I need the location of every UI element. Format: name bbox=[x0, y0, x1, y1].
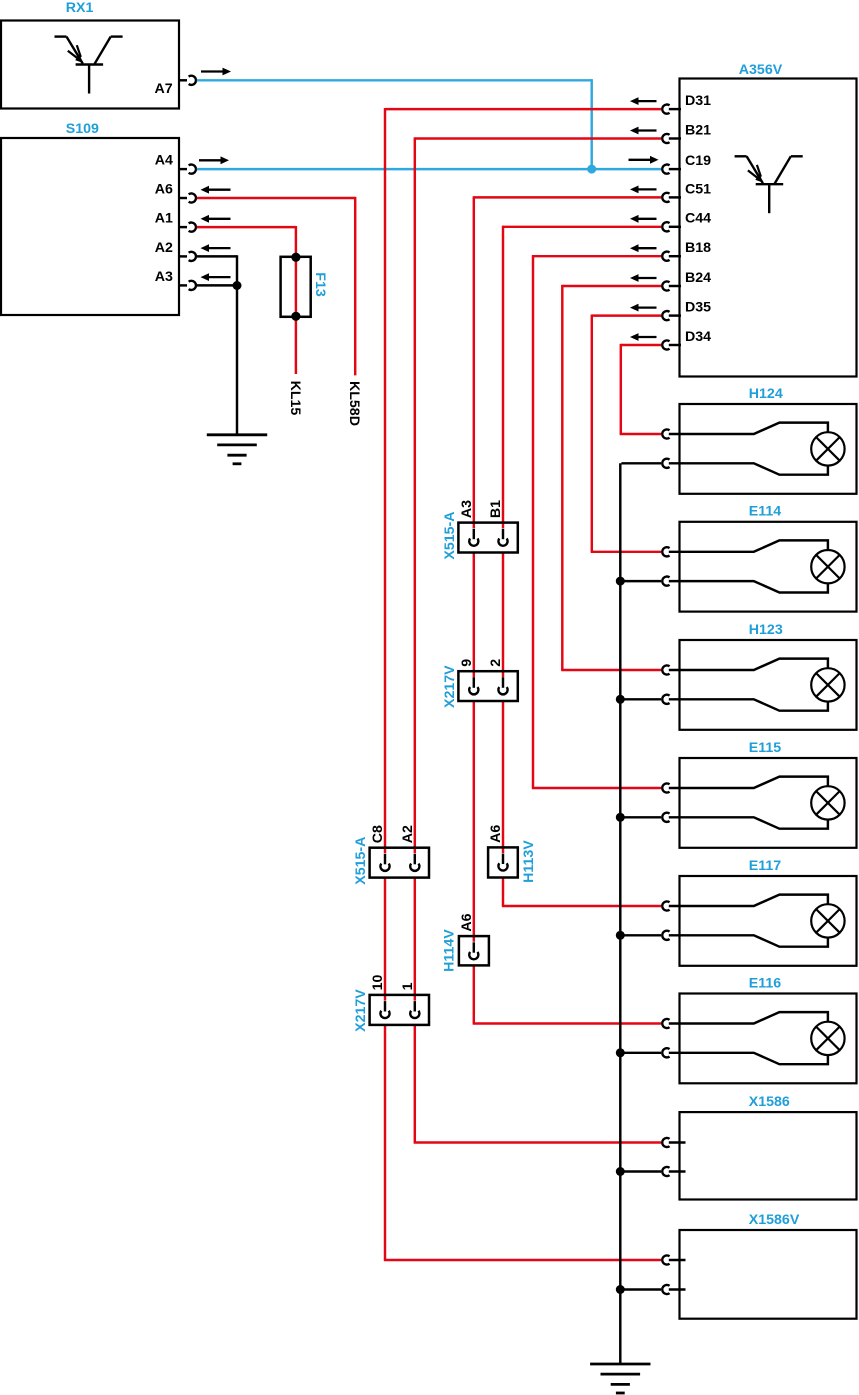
svg-text:A3: A3 bbox=[459, 500, 475, 518]
pin C19 label bbox=[685, 153, 711, 169]
svg-text:D31: D31 bbox=[685, 93, 711, 109]
connector X217V upper bbox=[458, 671, 517, 701]
pin bottom connector E114 bbox=[662, 577, 669, 586]
lamp symbol E116 bbox=[811, 1022, 844, 1055]
wire bus stub 0 bbox=[620, 580, 661, 582]
wire bus stub 3 bbox=[620, 934, 661, 936]
pin B24 label bbox=[685, 270, 711, 286]
wire D35 (red) bbox=[591, 314, 661, 551]
pin A4 label bbox=[155, 153, 173, 169]
svg-text:F13: F13 bbox=[312, 272, 328, 297]
pin bottom connector H123 bbox=[662, 695, 669, 704]
node A2/A3 junction bbox=[233, 281, 242, 290]
pin A3 label bbox=[459, 500, 475, 518]
svg-text:1: 1 bbox=[400, 982, 416, 990]
lamp symbol H124 bbox=[811, 432, 844, 465]
box S109 bbox=[1, 138, 179, 315]
node bus junction 3 bbox=[616, 931, 625, 940]
pin C44 connector bbox=[662, 222, 681, 231]
ground S109 bbox=[207, 435, 267, 464]
wire bus stub 6 bbox=[620, 1288, 661, 1290]
wire ground bus bbox=[620, 463, 661, 1364]
label X515-A lower bbox=[353, 837, 369, 885]
box E117 bbox=[680, 876, 857, 966]
pin top connector X1586 bbox=[662, 1138, 685, 1147]
antenna symbol in RX1 bbox=[55, 37, 123, 94]
svg-text:H124: H124 bbox=[749, 386, 783, 402]
node bus junction 4 bbox=[616, 1048, 625, 1057]
wire D34 (red) bbox=[620, 344, 661, 434]
wire A7 to C19 (blue) bbox=[197, 79, 592, 169]
lamp symbol E117 bbox=[811, 904, 844, 937]
arrow A3 in bbox=[201, 273, 231, 281]
lamp symbol H123 bbox=[811, 668, 844, 701]
label X1586 bbox=[749, 1094, 790, 1110]
svg-text:A2: A2 bbox=[155, 240, 173, 256]
svg-text:C51: C51 bbox=[685, 181, 711, 197]
svg-text:H114V: H114V bbox=[441, 929, 457, 972]
pin A6 connector bbox=[179, 193, 196, 202]
pin bottom connector X1586 bbox=[662, 1167, 685, 1176]
fuse F13 bbox=[281, 253, 311, 321]
pin D31 connector bbox=[662, 105, 681, 114]
box RX1 bbox=[1, 21, 179, 109]
arrow A2 in bbox=[201, 244, 231, 252]
pin C51 connector bbox=[662, 193, 681, 202]
antenna symbol in A356V bbox=[735, 156, 803, 213]
label X515-A upper bbox=[442, 511, 458, 559]
pin bottom connector E115 bbox=[662, 813, 669, 822]
svg-text:E115: E115 bbox=[749, 740, 781, 756]
wire bus stub 2 bbox=[620, 816, 661, 818]
wire C51 (red) bbox=[473, 196, 661, 1023]
box X1586V bbox=[680, 1230, 857, 1319]
pin top connector E115 bbox=[662, 783, 669, 792]
svg-text:H123: H123 bbox=[749, 622, 783, 638]
pin A6 label (H113V) bbox=[488, 825, 504, 843]
box X1586 bbox=[680, 1112, 857, 1199]
pin 2 label bbox=[488, 659, 504, 667]
pin bottom connector X1586V bbox=[662, 1285, 685, 1294]
lamp wires E117 bbox=[669, 895, 828, 947]
pin A2 label bbox=[400, 825, 416, 843]
lamp wires H124 bbox=[669, 423, 828, 475]
pin D34 label bbox=[685, 329, 711, 345]
label A356V bbox=[739, 62, 783, 78]
svg-text:A2: A2 bbox=[400, 825, 416, 843]
pin B24 connector bbox=[662, 281, 681, 290]
label X217V lower bbox=[353, 989, 369, 1032]
node junction C19 (blue) bbox=[587, 165, 596, 174]
wire A6 to KL58D bbox=[197, 197, 355, 376]
label E117 bbox=[749, 858, 781, 874]
svg-text:9: 9 bbox=[459, 659, 475, 667]
pin A7 label bbox=[154, 81, 172, 97]
connector X217V lower bbox=[370, 995, 429, 1025]
box H123 bbox=[680, 640, 857, 730]
pin C8 label bbox=[370, 825, 386, 843]
arrow A6 in bbox=[201, 186, 231, 194]
pin bottom connector E117 bbox=[662, 931, 669, 940]
svg-text:A3: A3 bbox=[155, 269, 173, 285]
wire A1 to KL15 bbox=[197, 226, 296, 374]
lamp wires E116 bbox=[669, 1012, 828, 1064]
pin A3 connector bbox=[179, 281, 196, 290]
pin C51 label bbox=[685, 181, 711, 197]
ground main bbox=[590, 1364, 650, 1393]
wire A4 to junction (blue) bbox=[197, 168, 592, 170]
connector H113V bbox=[488, 847, 518, 877]
lamp wires E115 bbox=[669, 777, 828, 829]
pin B1 label bbox=[488, 500, 504, 518]
arrow A1 in bbox=[201, 215, 231, 223]
lamp wires E114 bbox=[669, 540, 828, 592]
pin B18 connector bbox=[662, 252, 681, 261]
label KL15 bbox=[287, 381, 303, 416]
svg-text:B18: B18 bbox=[685, 240, 711, 256]
wire B18 (red) bbox=[532, 255, 661, 788]
label H123 bbox=[749, 622, 783, 638]
node bus junction 6 bbox=[616, 1285, 625, 1294]
svg-text:10: 10 bbox=[370, 975, 386, 991]
arrow C19 in bbox=[629, 156, 659, 164]
pin A2 connector bbox=[179, 252, 196, 261]
label H114V bbox=[441, 929, 457, 972]
svg-text:S109: S109 bbox=[66, 121, 99, 137]
pin 9 label bbox=[459, 659, 475, 667]
wire bus stub 5 bbox=[620, 1170, 661, 1172]
svg-text:E117: E117 bbox=[749, 858, 781, 874]
box E116 bbox=[680, 994, 857, 1084]
wire bus stub 1 bbox=[620, 698, 661, 700]
label E115 bbox=[749, 740, 781, 756]
pin D34 connector bbox=[662, 340, 681, 349]
pin bottom connector E116 bbox=[662, 1048, 669, 1057]
label X217V upper bbox=[442, 665, 458, 708]
svg-text:A356V: A356V bbox=[739, 62, 783, 78]
arrow A7 out bbox=[201, 68, 231, 76]
arrow B18 out bbox=[630, 244, 657, 252]
svg-text:A6: A6 bbox=[459, 913, 475, 931]
pin C44 label bbox=[685, 211, 711, 227]
node bus junction 5 bbox=[616, 1167, 625, 1176]
label KL58D bbox=[346, 381, 362, 426]
svg-text:2: 2 bbox=[488, 659, 504, 667]
pin A1 connector bbox=[179, 223, 196, 232]
svg-text:B21: B21 bbox=[685, 122, 711, 138]
arrow D31 out bbox=[630, 97, 657, 105]
svg-text:X515-A: X515-A bbox=[353, 837, 369, 885]
pin top connector E116 bbox=[662, 1019, 669, 1028]
svg-text:H113V: H113V bbox=[521, 840, 537, 883]
svg-text:RX1: RX1 bbox=[66, 0, 94, 16]
pin A6 label bbox=[155, 182, 173, 198]
svg-text:A1: A1 bbox=[155, 211, 173, 227]
lamp symbol E115 bbox=[811, 786, 844, 819]
svg-text:D35: D35 bbox=[685, 300, 711, 316]
svg-text:A6: A6 bbox=[488, 825, 504, 843]
svg-text:KL15: KL15 bbox=[287, 381, 303, 416]
pin 10 label bbox=[370, 975, 386, 991]
svg-text:C44: C44 bbox=[685, 211, 711, 227]
pin A2 label bbox=[155, 240, 173, 256]
pin A4 connector bbox=[179, 165, 196, 174]
connector X515-A lower bbox=[370, 848, 429, 878]
svg-text:B1: B1 bbox=[488, 500, 504, 518]
wire junction to ground bbox=[236, 286, 238, 435]
svg-text:A6: A6 bbox=[155, 182, 173, 198]
pin D31 label bbox=[685, 93, 711, 109]
pin A1 label bbox=[155, 211, 173, 227]
connector X515-A upper bbox=[458, 523, 517, 553]
arrow C44 out bbox=[630, 215, 657, 223]
svg-text:A7: A7 bbox=[154, 81, 172, 97]
box H124 bbox=[680, 404, 857, 494]
connector H114V bbox=[459, 936, 489, 965]
svg-text:E116: E116 bbox=[749, 975, 781, 991]
arrow A4 out bbox=[199, 156, 229, 164]
lamp wires H123 bbox=[669, 659, 828, 711]
label F13 bbox=[312, 272, 328, 297]
arrow B21 out bbox=[630, 127, 657, 135]
svg-text:X515-A: X515-A bbox=[442, 511, 458, 559]
pin B21 connector bbox=[662, 134, 681, 143]
arrow B24 out bbox=[630, 274, 657, 282]
pin A7 connector bbox=[179, 76, 196, 85]
pin top connector H123 bbox=[662, 665, 669, 674]
svg-text:X217V: X217V bbox=[442, 665, 458, 708]
pin top connector E114 bbox=[662, 547, 669, 556]
wire A3 to junction bbox=[197, 284, 237, 286]
node bus junction 2 bbox=[616, 813, 625, 822]
pin D35 connector bbox=[662, 311, 681, 320]
svg-text:E114: E114 bbox=[749, 504, 781, 520]
svg-text:KL58D: KL58D bbox=[346, 381, 362, 426]
pin top connector E117 bbox=[662, 901, 669, 910]
node bus junction 0 bbox=[616, 577, 625, 586]
pin 1 label bbox=[400, 982, 416, 990]
svg-text:C19: C19 bbox=[685, 153, 711, 169]
pin A6 label (H114V) bbox=[459, 913, 475, 931]
pin top connector X1586V bbox=[662, 1255, 685, 1264]
pin B21 label bbox=[685, 122, 711, 138]
svg-text:X217V: X217V bbox=[353, 989, 369, 1032]
svg-text:D34: D34 bbox=[685, 329, 711, 345]
wire A2 down bbox=[197, 255, 237, 285]
label RX1 bbox=[66, 0, 94, 16]
label E116 bbox=[749, 975, 781, 991]
svg-text:X1586V: X1586V bbox=[749, 1212, 800, 1228]
wire C44 (red) bbox=[502, 226, 661, 906]
arrow C51 out bbox=[630, 186, 657, 194]
wire B21 (red) bbox=[414, 137, 661, 1142]
pin B18 label bbox=[685, 240, 711, 256]
pin bottom connector H124 bbox=[662, 459, 669, 468]
label H124 bbox=[749, 386, 783, 402]
wire junction to C19 (blue) bbox=[592, 168, 661, 170]
label H113V bbox=[521, 840, 537, 883]
box E114 bbox=[680, 522, 857, 612]
arrow D34 out bbox=[630, 333, 657, 341]
wire bus stub 4 bbox=[620, 1052, 661, 1054]
box A356V bbox=[680, 79, 857, 377]
box E115 bbox=[680, 758, 857, 848]
pin C19 connector bbox=[662, 165, 681, 174]
svg-text:A4: A4 bbox=[155, 153, 173, 169]
label X1586V bbox=[749, 1212, 800, 1228]
wire D31 (red) bbox=[384, 108, 661, 1260]
lamp symbol E114 bbox=[811, 550, 844, 583]
label E114 bbox=[749, 504, 781, 520]
arrow D35 out bbox=[630, 304, 657, 312]
pin top connector H124 bbox=[662, 429, 669, 438]
svg-text:B24: B24 bbox=[685, 270, 711, 286]
svg-text:X1586: X1586 bbox=[749, 1094, 790, 1110]
pin D35 label bbox=[685, 300, 711, 316]
wire B24 (red) bbox=[561, 285, 661, 670]
pin A3 label bbox=[155, 269, 173, 285]
label S109 bbox=[66, 121, 99, 137]
svg-text:C8: C8 bbox=[370, 825, 386, 843]
node bus junction 1 bbox=[616, 695, 625, 704]
